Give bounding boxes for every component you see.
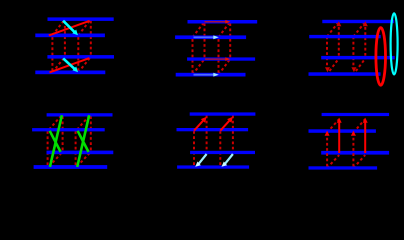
panel A chain bar 2	[35, 34, 105, 38]
panel C ring 1 down arrowhead	[325, 67, 330, 72]
panel B red hop arrowhead chain 1	[225, 20, 230, 24]
panel F chain bar 1	[322, 113, 390, 116]
panel A dashed vertical bond front-left	[51, 37, 53, 71]
panel B dashed rung bottom-face right	[219, 59, 231, 75]
panel D chain bar 4	[34, 165, 108, 169]
panel B dashed rung top-face left	[193, 22, 205, 38]
panel A dashed vertical bond back-right	[90, 21, 92, 56]
panel B cyan hop arrow on chain 4	[194, 74, 214, 76]
panel D ring 2 dashed front vertical	[75, 131, 77, 165]
panel E red rung arrow left	[194, 119, 204, 131]
panel C red ellipse around front chain ends	[376, 28, 386, 86]
panel E cyan rung arrowhead right	[222, 162, 228, 167]
panel B cyan hop arrow on chain 2	[194, 36, 214, 38]
panel C ring 2 dashed front vertical	[352, 37, 354, 68]
panel A dashed rung top-face left	[52, 19, 65, 35]
panel D ring 1 dashed top slant	[49, 116, 61, 130]
panel E red rung arrowhead left	[201, 117, 207, 123]
panel C ring 2 down arrowhead	[351, 67, 356, 72]
panel D chain bar 1	[47, 113, 113, 116]
panel B chain bar 1	[188, 20, 258, 24]
panel C ring 2 up arrowhead	[363, 21, 368, 26]
panel A red diagonal exchange bottom face	[50, 58, 90, 72]
panel A red diagonal exchange top face	[49, 21, 90, 36]
panel C chain bar 1	[322, 20, 394, 23]
panel E dashed vertical bond front-left	[193, 131, 195, 166]
panel E cyan rung arrow left	[198, 154, 206, 164]
panel D green long diagonal column 2	[77, 115, 89, 167]
panel B red hop arrowhead chain 3	[225, 57, 230, 61]
panel F solid back vertical arrow shaft right	[364, 121, 366, 154]
panel D green short diagonal column 2	[78, 131, 89, 152]
panel C chain bar 2	[309, 35, 381, 38]
panel D ring 2 dashed bottom slant	[77, 153, 89, 166]
panel F front up arrowhead right	[351, 131, 356, 136]
figure: six-panel exchange-path diagram on black background	[0, 0, 404, 188]
panel D green long diagonal column 1	[50, 115, 62, 167]
panel D chain bar 3	[47, 151, 114, 155]
panel F chain bar 4	[309, 166, 378, 169]
panel A dashed rung top-face right	[78, 19, 91, 35]
panel E dashed vertical bond back-left	[206, 116, 208, 152]
panel B dashed vertical bond back-right	[229, 23, 231, 57]
panel E red rung arrow right	[220, 119, 230, 131]
panel B chain bar 3	[187, 57, 255, 60]
panel E dashed vertical bond front-right	[219, 131, 221, 166]
panel C ring 1 dashed bottom slant	[330, 59, 339, 72]
panel A dashed rung bottom-face left	[52, 57, 65, 73]
panel B dashed rung top-face right	[219, 22, 231, 38]
panel E cyan rung arrow right	[225, 154, 233, 164]
panel F dashed rung bottom-face right	[353, 155, 365, 168]
panel A dashed rung bottom-face right	[78, 57, 91, 73]
panel F chain bar 3	[321, 151, 389, 155]
panel C ring 2 dashed back vertical	[364, 22, 366, 56]
panel D ring 1 dashed back vertical	[62, 116, 64, 151]
panel F solid back vertical arrow shaft left	[338, 121, 340, 154]
panel A dashed vertical bond back-left	[64, 21, 66, 56]
panel F back up arrowhead right	[363, 118, 368, 123]
panel D ring 2 dashed top slant	[77, 116, 89, 130]
panel F dashed front vertical arrow shaft right	[352, 135, 354, 167]
panel B chain bar 2	[175, 35, 246, 39]
panel C chain bar 4	[309, 72, 381, 76]
panel C ring 2 dashed bottom slant	[356, 59, 365, 72]
panel E cyan rung arrowhead left	[195, 162, 201, 167]
panel A cyan arrowhead top face	[72, 30, 78, 36]
panel B red hop arrow on chain 3	[205, 58, 226, 60]
panel A cyan diagonal arrow bottom face	[63, 58, 75, 69]
panel C ring 1 dashed top slant	[327, 22, 339, 37]
panel B cyan hop arrowhead chain 2	[213, 35, 219, 39]
panel A cyan arrowhead bottom face	[72, 67, 78, 73]
panel E red rung arrowhead right	[227, 117, 233, 123]
panel F dashed rung top-face right	[353, 119, 365, 133]
panel F dashed front vertical arrow shaft left	[326, 135, 328, 167]
panel F back up arrowhead left	[337, 118, 342, 123]
panel F dashed rung top-face left	[327, 119, 339, 133]
panel B dashed vertical bond back-left	[204, 23, 206, 57]
panel C ring 2 dashed top slant	[353, 22, 365, 37]
panel D green short diagonal column 1	[50, 131, 61, 152]
panel A dashed vertical bond front-right	[77, 37, 79, 71]
panel E chain bar 2	[177, 128, 249, 131]
panel A chain bar 1	[48, 17, 114, 21]
panel B cyan hop arrowhead chain 4	[213, 73, 219, 77]
panel A chain bar 4	[35, 71, 105, 75]
panel C ring 1 dashed back vertical	[338, 22, 340, 56]
panel A cyan diagonal arrow top face	[63, 21, 75, 33]
panel D ring 1 dashed bottom slant	[49, 153, 61, 166]
panel B dashed vertical bond front-right	[218, 39, 220, 73]
panel C cyan ellipse around back chain ends	[391, 13, 398, 74]
panel D chain bar 2	[32, 128, 105, 131]
panel D ring 2 dashed back vertical	[90, 116, 92, 151]
panel C chain bar 3	[321, 56, 395, 60]
panel F chain bar 2	[309, 129, 376, 133]
panel F dashed rung bottom-face left	[327, 155, 339, 168]
panel E dashed vertical bond back-right	[232, 116, 234, 152]
panel C ring 1 up arrowhead	[336, 21, 341, 26]
panel F front up arrowhead left	[325, 131, 330, 136]
panel A chain bar 3	[47, 55, 114, 59]
panel E chain bar 4	[177, 165, 249, 168]
panel B red hop arrow on chain 1	[205, 21, 226, 23]
panel C ring 1 dashed front vertical	[326, 37, 328, 68]
panel D ring 1 dashed front vertical	[47, 131, 49, 165]
panel B dashed vertical bond front-left	[192, 39, 194, 73]
panel B dashed rung bottom-face left	[193, 59, 205, 75]
panel B chain bar 4	[176, 73, 246, 77]
panel E chain bar 3	[190, 151, 255, 154]
panel E chain bar 1	[190, 112, 256, 115]
